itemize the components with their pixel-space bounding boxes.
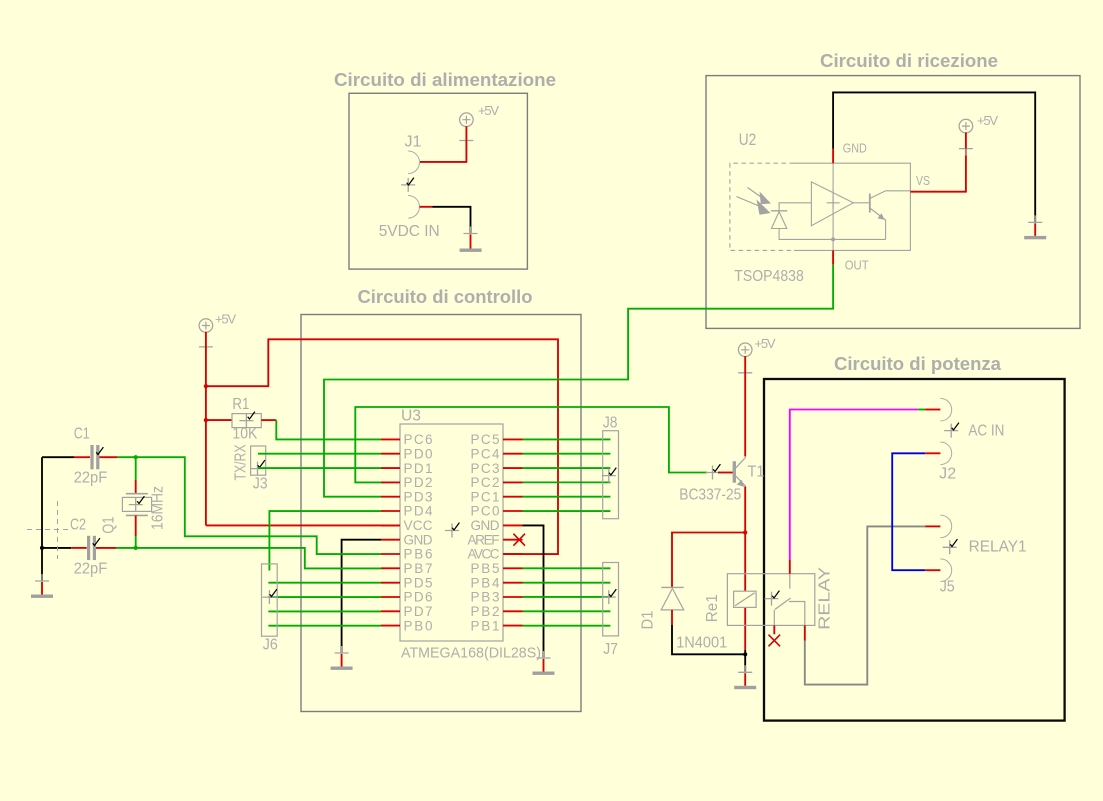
wire coil bottom to GND junction [744, 607, 746, 650]
svg-text:AREF: AREF [468, 532, 500, 547]
connector J2 [940, 398, 951, 464]
svg-text:22pF: 22pF [74, 561, 108, 578]
wire to D1 [672, 533, 745, 588]
wire GND U2 [832, 149, 834, 164]
pin PC4 U3 right [471, 446, 523, 461]
svg-text:PC1: PC1 [471, 489, 500, 504]
svg-text:PB7: PB7 [404, 561, 433, 576]
wire J3 pin2 to PD1 [258, 467, 381, 469]
pin PD6 U3 left [381, 590, 433, 605]
origin U3 [445, 524, 459, 538]
+5V supply symbol P2 [199, 312, 236, 333]
section box potenza [764, 379, 1065, 721]
svg-text:VS: VS [916, 173, 930, 188]
origin J8 [602, 469, 616, 483]
ground alimentazione [470, 235, 472, 249]
svg-text:PD4: PD4 [404, 504, 433, 519]
svg-text:PD7: PD7 [404, 604, 433, 619]
svg-text:RELAY1: RELAY1 [969, 539, 1027, 556]
svg-text:U2: U2 [739, 130, 757, 149]
svg-text:PC4: PC4 [471, 446, 500, 461]
svg-text:16MHz: 16MHz [150, 486, 167, 530]
svg-text:J5: J5 [940, 579, 955, 596]
pin PD7 U3 left [381, 604, 433, 619]
wire PB5 to J7 [523, 567, 611, 569]
svg-text:PB6: PB6 [404, 547, 433, 562]
capacitor C2 [42, 536, 138, 560]
pin PD5 U3 left [381, 575, 433, 590]
svg-text:R1: R1 [232, 396, 249, 413]
no-connect X relay common [769, 635, 781, 647]
U2 photodiode [771, 203, 886, 240]
wire J1 pin2 stub [420, 206, 433, 208]
pin PD2 U3 left [381, 475, 433, 490]
wire GND net caps [41, 457, 43, 581]
section box controllo [301, 315, 581, 712]
svg-text:GND: GND [843, 141, 867, 156]
svg-text:J2: J2 [939, 466, 956, 483]
ground crystal [31, 574, 53, 598]
svg-text:+5V: +5V [977, 113, 998, 128]
svg-text:+5V: +5V [755, 336, 776, 351]
wire +5V to T1 collector [744, 356, 746, 456]
wire J6 pin3 to PD6 [268, 596, 381, 598]
+5V supply symbol P3 [959, 113, 998, 133]
diode D1 1N4001 [661, 587, 684, 610]
svg-text:J8: J8 [603, 415, 618, 432]
origin J6 [262, 590, 276, 604]
wire PD4 to J6 pin1 [269, 511, 381, 570]
svg-text:PC3: PC3 [471, 461, 500, 476]
pin GND alimentazione [464, 227, 478, 241]
wire PC4 to J8 [523, 453, 611, 455]
svg-text:AVCC: AVCC [468, 547, 500, 562]
svg-text:PB1: PB1 [471, 618, 500, 633]
section box alimentazione [349, 93, 527, 269]
wire PB6 to C1 [136, 457, 381, 554]
no-connect X AREF [513, 534, 525, 546]
svg-text:Circuito di potenza: Circuito di potenza [834, 354, 1002, 374]
op IC U3 ATMEGA168 body [400, 424, 503, 641]
wire R1 to PC6 [276, 420, 381, 439]
svg-text:PB0: PB0 [404, 618, 433, 633]
capacitor C1 [42, 445, 136, 469]
junction +5V/R1 [204, 418, 208, 422]
pin AVCC U3 right [468, 547, 523, 562]
wire +5V rail [205, 332, 207, 526]
svg-text:PB2: PB2 [471, 604, 500, 619]
pin PB6 U3 left [381, 547, 433, 562]
wire relay NO contact magenta [790, 410, 918, 561]
svg-text:OUT: OUT [845, 258, 869, 273]
svg-text:ATMEGA168(DIL28S): ATMEGA168(DIL28S) [401, 645, 541, 662]
junction C2/GND [40, 546, 44, 550]
U2 IR arrows [737, 188, 772, 215]
svg-text:PD6: PD6 [404, 590, 433, 605]
wire PB3 to J7 [523, 596, 611, 598]
wire +5V to J1 pin1 [420, 126, 466, 162]
svg-text:PD5: PD5 [404, 575, 433, 590]
svg-text:PC5: PC5 [471, 432, 500, 447]
connector J7 [603, 563, 619, 636]
svg-text:PC2: PC2 [471, 475, 500, 490]
wire PD3 to U2 OUT [324, 265, 833, 497]
svg-text:PB3: PB3 [471, 590, 500, 605]
wire GND left [342, 540, 381, 653]
connector J3 [251, 446, 266, 475]
wire PC5 to J8 [523, 438, 611, 440]
svg-text:PB5: PB5 [471, 561, 500, 576]
svg-text:Circuito di controllo: Circuito di controllo [358, 287, 533, 307]
connector J8 [603, 431, 619, 519]
pin PD1 U3 left [381, 461, 433, 476]
svg-text:22pF: 22pF [74, 470, 108, 487]
svg-text:PC0: PC0 [471, 504, 500, 519]
svg-text:PD1: PD1 [404, 461, 433, 476]
wire VS to +5V [910, 149, 966, 192]
U2 output transistor [853, 191, 910, 240]
pin PB0 U3 left [381, 618, 433, 633]
svg-text:Q1: Q1 [101, 517, 118, 534]
junction emitter/D1 [743, 530, 747, 534]
svg-text:GND: GND [404, 532, 433, 547]
pin P2 [199, 340, 213, 354]
svg-text:PD0: PD0 [404, 446, 433, 461]
connector J5 [940, 515, 951, 581]
origin Re1 [765, 592, 779, 606]
connector J1 [408, 151, 419, 218]
pin PC5 U3 right [471, 432, 523, 447]
svg-text:PD2: PD2 [404, 475, 433, 490]
U2 amplifier triangle [811, 182, 853, 226]
pin P4 [738, 366, 752, 380]
pin PC6 U3 left [381, 432, 433, 447]
svg-text:J7: J7 [603, 641, 618, 658]
wire D1 anode [671, 610, 673, 625]
svg-text:D1: D1 [640, 610, 657, 629]
relay Re1 [727, 574, 814, 626]
svg-text:10K: 10K [232, 426, 257, 443]
pin PB1 U3 right [471, 618, 523, 633]
sheet origin dashed cross [27, 501, 69, 559]
wire J2 pin2 to J5 pin2 blue [892, 453, 925, 570]
svg-text:C2: C2 [70, 517, 86, 534]
wire J6 pin5 to PB0 [268, 625, 381, 627]
pin PD0 U3 left [381, 446, 433, 461]
svg-text:TSOP4838: TSOP4838 [734, 268, 804, 285]
svg-text:TX/RX: TX/RX [233, 444, 250, 480]
svg-text:PB4: PB4 [471, 575, 500, 590]
svg-text:+5V: +5V [478, 103, 499, 118]
svg-text:J1: J1 [405, 134, 422, 151]
wire PB1 to J7 [523, 625, 611, 627]
svg-text:Re1: Re1 [704, 594, 721, 622]
pin PB5 U3 right [471, 561, 523, 576]
wire GND net J1 [433, 207, 471, 234]
origin R1 [239, 414, 253, 428]
junction +5V/AVCC [204, 384, 208, 388]
svg-text:Circuito di ricezione: Circuito di ricezione [820, 51, 998, 71]
junction C1/Q1 [134, 455, 138, 459]
ground potenza [734, 665, 756, 689]
junction C2/Q1 [134, 546, 138, 550]
svg-text:VCC: VCC [404, 518, 433, 533]
svg-text:Circuito di alimentazione: Circuito di alimentazione [334, 70, 556, 90]
wire GND right [523, 525, 544, 658]
IC U2 TSOP4838 body [730, 163, 911, 250]
svg-text:J3: J3 [253, 476, 268, 493]
pin PB2 U3 right [471, 604, 523, 619]
pin stub relay common [773, 625, 775, 634]
svg-text:1N4001: 1N4001 [676, 635, 727, 652]
origin J1 [401, 178, 415, 192]
U2 internal GND rail [832, 163, 834, 250]
wire relay NC contact grey [804, 625, 806, 640]
wire AVCC net [206, 339, 558, 554]
origin J7 [602, 590, 616, 604]
wire PB2 to J7 [523, 610, 611, 612]
pin PD4 U3 left [381, 504, 433, 519]
crystal Q1 [122, 457, 151, 548]
wire PB7 to C2 [138, 548, 381, 569]
svg-text:T1: T1 [748, 464, 765, 481]
svg-text:+5V: +5V [215, 312, 236, 327]
wire OUT stub [832, 250, 834, 264]
wire J6 pin2 to PD5 [268, 582, 381, 584]
svg-text:GND: GND [471, 518, 500, 533]
pin PD3 U3 left [381, 489, 433, 504]
svg-text:BC337-25: BC337-25 [679, 487, 741, 504]
pin GND U3 right [471, 518, 523, 533]
wire PC0 to J8 [523, 510, 611, 512]
wire PB4 to J7 [523, 582, 611, 584]
wire T1 emitter down [744, 487, 746, 592]
svg-text:5VDC IN: 5VDC IN [379, 223, 440, 240]
+5V supply symbol P4 [738, 336, 775, 357]
+5V supply symbol P1 [460, 103, 500, 126]
svg-text:PD3: PD3 [404, 489, 433, 504]
svg-text:C1: C1 [74, 426, 90, 443]
pin PB7 U3 left [381, 561, 433, 576]
pin PB4 U3 right [471, 575, 523, 590]
pin VCC U3 left [381, 518, 433, 533]
pin PC3 U3 right [471, 461, 523, 476]
origin Q1 [129, 498, 143, 512]
section box ricezione [706, 76, 1080, 329]
ground controllo left [331, 646, 353, 670]
ground ricezione [1024, 215, 1046, 239]
origin J3 [251, 462, 265, 476]
wire PC2 to J8 [523, 481, 611, 483]
wire PC3 to J8 [523, 467, 611, 469]
wire PC1 to J8 [523, 496, 611, 498]
pin AREF U3 right [468, 532, 523, 547]
wire VCC net [206, 524, 400, 526]
pin PC1 U3 right [471, 489, 523, 504]
wire J3 pin1 to PD0 [258, 453, 381, 455]
svg-text:PC6: PC6 [404, 432, 433, 447]
pin PC2 U3 right [471, 475, 523, 490]
svg-text:AC IN: AC IN [968, 423, 1004, 440]
pin GND U3 left [381, 532, 433, 547]
resistor R1 [206, 414, 276, 428]
svg-text:J6: J6 [263, 637, 278, 654]
pin P1 [459, 134, 473, 148]
pin PC0 U3 right [471, 504, 523, 519]
ground controllo right [533, 651, 555, 675]
wire J6 pin4 to PD7 [268, 610, 381, 612]
origin J2 [944, 424, 958, 438]
pin PB3 U3 right [471, 590, 523, 605]
transistor T1 [706, 457, 746, 487]
pin P3 [959, 142, 973, 156]
connector J6 [262, 564, 278, 636]
junction GND potenza [743, 652, 747, 656]
svg-text:U3: U3 [401, 408, 421, 425]
origin J5 [943, 540, 957, 554]
svg-text:RELAY: RELAY [817, 566, 834, 629]
wire PD2 to T1 base [355, 407, 707, 482]
